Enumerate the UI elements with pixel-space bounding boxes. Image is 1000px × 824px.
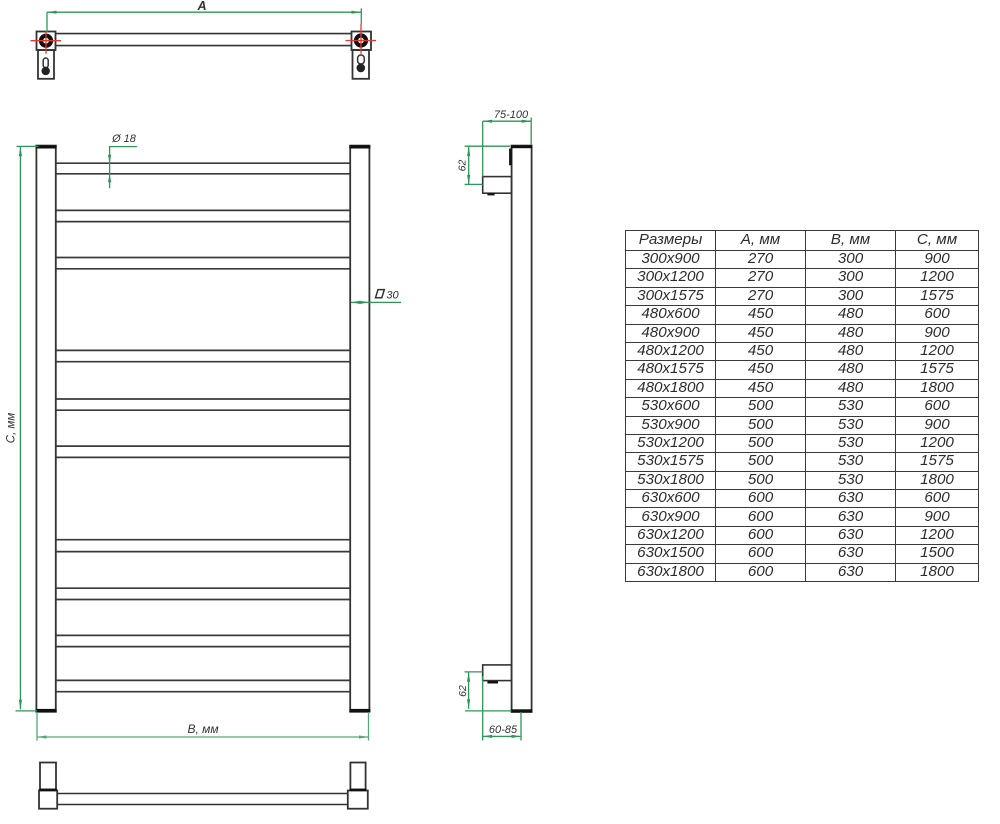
svg-text:C, мм: C, мм: [6, 413, 18, 444]
svg-text:75-100: 75-100: [494, 109, 529, 121]
svg-text:Ø 18: Ø 18: [111, 133, 137, 145]
svg-text:60-85: 60-85: [489, 724, 518, 736]
svg-text:B, мм: B, мм: [187, 722, 218, 736]
svg-text:62: 62: [457, 685, 469, 697]
svg-text:30: 30: [386, 290, 399, 302]
svg-text:62: 62: [457, 160, 469, 172]
svg-text:A: A: [196, 0, 206, 13]
